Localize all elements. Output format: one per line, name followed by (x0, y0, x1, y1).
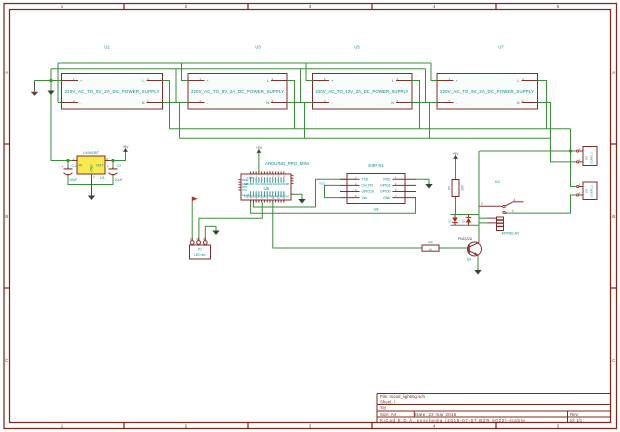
wire: relay common feed (480, 150, 577, 152)
wire: LED strip right pin to ground (205, 226, 216, 240)
power symbol +5V (arduino) (256, 146, 263, 153)
svg-text:220V_AC_TO_12V_2A_DC_POWER_SUP: 220V_AC_TO_12V_2A_DC_POWER_SUPPLY (316, 89, 409, 94)
svg-text:1: 1 (512, 209, 514, 213)
svg-text:P8: P8 (585, 156, 589, 160)
wire: L rail drop to connectors (571, 129, 577, 187)
svg-text:ESP-01: ESP-01 (368, 163, 384, 168)
diode D2 (448, 215, 458, 226)
svg-text:GND: GND (90, 164, 94, 172)
wire: relay common drop (478, 151, 480, 242)
svg-text:VCC: VCC (319, 182, 326, 186)
svg-text:10uF: 10uF (69, 178, 78, 182)
power symbol +5V (regulator output) (122, 145, 129, 152)
wire: U2 + pin to ground rail (35, 80, 62, 82)
connector P1 LED strip (190, 237, 211, 259)
row ticks (4, 144, 617, 288)
wire: base resistor to transistor (439, 247, 467, 249)
svg-text:+5V: +5V (122, 145, 129, 149)
wire: U5 L drop (412, 81, 420, 129)
svg-text:K2: K2 (495, 179, 501, 184)
wire: arduino to LED strip middle pin (199, 203, 262, 241)
capacitor C2 (107, 164, 124, 182)
wire: ESP CH_PD to Vcc loop (325, 185, 341, 197)
wire: emitter to ground (477, 256, 479, 268)
title block text (380, 394, 583, 423)
svg-text:Rev:: Rev: (570, 412, 579, 417)
svg-text:3: 3 (514, 198, 516, 202)
svg-text:L: L (517, 79, 519, 83)
svg-text:10uF: 10uF (115, 178, 124, 182)
junction node: relay feed (569, 149, 572, 152)
svg-text:GND: GND (383, 196, 391, 200)
svg-text:ARDUINO_PRO_MINI: ARDUINO_PRO_MINI (265, 161, 309, 166)
title block (377, 394, 611, 423)
wire: +5V to R6 (455, 159, 457, 180)
svg-text:D2: D2 (448, 219, 452, 223)
power supply U7 (437, 45, 538, 110)
svg-text:U6: U6 (264, 186, 270, 191)
svg-text:U1: U1 (100, 176, 105, 180)
wire: U5 N drop (412, 103, 430, 139)
wire: arduino TX to ESP TXD (253, 179, 347, 207)
power supply U2 (62, 45, 163, 110)
wire: diode bottom rail (451, 224, 480, 226)
diode D1 (462, 215, 472, 226)
svg-text:A: A (5, 70, 8, 75)
svg-text:GPIO0: GPIO0 (380, 190, 390, 194)
svg-text:N: N (391, 101, 394, 105)
svg-text:OUT: OUT (96, 163, 103, 167)
svg-text:A4 A6: A4 A6 (242, 193, 250, 197)
svg-text:1K: 1K (429, 247, 433, 251)
wire: AC N rail (180, 137, 551, 139)
svg-text:L: L (392, 79, 394, 83)
wire: U5 left pin risers (301, 63, 313, 103)
svg-text:N: N (142, 101, 145, 105)
wire: U3 L drop (287, 81, 295, 129)
svg-text:Size: A4: Size: A4 (380, 412, 397, 417)
svg-text:2: 2 (481, 202, 483, 206)
wire: U2 - pin riser (58, 63, 62, 103)
svg-text:LED str.: LED str. (194, 253, 206, 257)
ground (emitter) (474, 268, 481, 275)
svg-text:U2: U2 (104, 45, 110, 50)
regulator U1 L4941BT (72, 150, 111, 185)
connector P9 (577, 182, 598, 200)
svg-text:Vcc: Vcc (362, 196, 368, 200)
relay K2 switch contacts (479, 198, 524, 214)
power flag (LED strip supply) (192, 197, 196, 204)
resistor R4 (422, 241, 439, 252)
svg-text:N: N (517, 101, 520, 105)
transistor Q4 PN2222A (458, 237, 482, 262)
wire: U3 left pin risers (176, 63, 188, 103)
power symbol +5V (relay resistor) (452, 152, 459, 158)
wire: arduino +5V stem (258, 153, 260, 172)
svg-text:U3: U3 (255, 45, 261, 50)
wire: regulator output to +5V (111, 152, 126, 161)
wire: cap C1 tap (67, 161, 69, 168)
svg-text:B: B (612, 214, 615, 219)
wire: ESP GND pin to ground (416, 179, 429, 183)
arduino U6 ARDUINO_PRO_MINI (239, 161, 309, 203)
wire: U7 N drop to conn P8 pin2 (538, 103, 577, 162)
ground (right of ESP) (425, 183, 432, 189)
svg-text:N: N (266, 101, 269, 105)
svg-text:B: B (5, 214, 8, 219)
svg-text:RXD: RXD (383, 177, 391, 181)
svg-text:Date: 22 mar 2016: Date: 22 mar 2016 (415, 412, 457, 417)
column ticks (124, 4, 496, 429)
wire: arduino right pin to ground (294, 194, 303, 198)
junction node: C1 tap (66, 159, 69, 162)
svg-text:220V_AC_TO_9V_2A_DC_POWER_SUPP: 220V_AC_TO_9V_2A_DC_POWER_SUPPLY (191, 89, 284, 94)
wire: regulator feed drop (51, 69, 72, 161)
svg-text:Sheet: /: Sheet: / (380, 399, 396, 404)
svg-text:TXD: TXD (362, 177, 369, 181)
connector P8 (577, 147, 598, 166)
capacitor C1 (62, 164, 78, 182)
ground (regulator) (88, 185, 95, 201)
wire: R6 to diode rail (455, 197, 457, 215)
svg-text:U8: U8 (374, 208, 379, 212)
svg-text:10K: 10K (461, 184, 465, 191)
svg-text:GPIO16: GPIO16 (362, 190, 374, 194)
svg-text:IN: IN (79, 163, 83, 167)
svg-text:L: L (142, 79, 144, 83)
svg-text:U5: U5 (354, 45, 360, 50)
svg-text:GPIO2: GPIO2 (380, 184, 390, 188)
wire: arduino to base resistor R4 (273, 203, 422, 249)
svg-text:A: A (612, 70, 615, 75)
svg-text:P9: P9 (585, 189, 589, 193)
wire: top DC- rail (51, 68, 426, 70)
svg-text:CONN_2: CONN_2 (590, 152, 594, 164)
svg-text:220V_AC_TO_9V_2A_DC_POWER_SUPP: 220V_AC_TO_9V_2A_DC_POWER_SUPPLY (440, 89, 534, 94)
svg-text:+5V: +5V (256, 146, 263, 150)
svg-text:MYRELAY: MYRELAY (502, 232, 520, 236)
relay K2 coil MYRELAY (487, 179, 520, 236)
wire: regulator ground bus (68, 176, 113, 195)
junction node: C2 tap (111, 159, 114, 162)
svg-text:D1: D1 (462, 219, 466, 223)
svg-text:L: L (267, 79, 269, 83)
svg-text:L4941BT: L4941BT (83, 150, 100, 155)
svg-text:U7: U7 (498, 45, 504, 50)
svg-text:PN2222A: PN2222A (458, 237, 473, 241)
wire: conn P9 pin2 to relay contact (505, 195, 576, 213)
wire: arduino to ESP RST (251, 198, 416, 213)
svg-text:R4: R4 (428, 241, 432, 245)
wire: U2 N drop (163, 103, 180, 139)
power supply U3 (188, 45, 287, 110)
wire: U7 L drop (538, 81, 547, 129)
svg-text:P1: P1 (198, 248, 202, 252)
svg-text:Titl: Titl (380, 406, 386, 411)
wire: U7 left pin risers (426, 63, 438, 103)
svg-text:R6: R6 (447, 186, 451, 190)
svg-text:C1: C1 (72, 164, 77, 168)
svg-text:CH_PD: CH_PD (362, 184, 374, 188)
ground (on regulator feed wire) (48, 91, 55, 96)
svg-text:VCC: VCC (242, 188, 248, 192)
wire: U3 N drop (287, 103, 305, 139)
wire: diode top rail (451, 214, 480, 216)
svg-text:Id: 1/1: Id: 1/1 (570, 418, 583, 423)
wire: coil pin jogs (479, 218, 487, 223)
resistor R6 (447, 180, 465, 197)
wire: AC L rail (170, 128, 571, 130)
svg-text:Q4: Q4 (467, 258, 472, 262)
esp U8 ESP-01 (340, 163, 416, 212)
ground (LED strip) (212, 229, 219, 235)
svg-text:220V_AC_TO_5V_2A_DC_POWER_SUPP: 220V_AC_TO_5V_2A_DC_POWER_SUPPLY (65, 89, 160, 94)
svg-text:CONN_2: CONN_2 (590, 185, 594, 197)
wire: top DC+ rail (58, 62, 431, 64)
svg-text:+5V: +5V (452, 152, 459, 156)
junction node: regulator input tie (49, 79, 52, 82)
wire: LED strip left pin riser (191, 204, 193, 241)
power supply U5 (313, 45, 413, 110)
ground (right of arduino) (298, 198, 305, 204)
svg-text:C2: C2 (117, 164, 122, 168)
wire: U2 L drop (163, 81, 170, 129)
ground (left of U2, earth) (31, 81, 38, 96)
wire: cap C2 tap (112, 161, 114, 168)
svg-text:KiCad E.D.A. eeschema (2015-0: KiCad E.D.A. eeschema (2015-07-07 BZR 60… (380, 418, 526, 423)
